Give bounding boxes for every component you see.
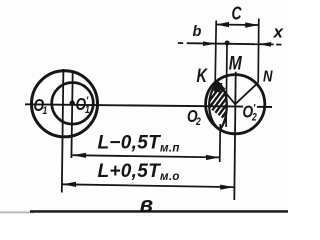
svg-text:L−0,5Tм.п: L−0,5Tм.п <box>98 132 180 154</box>
svg-text:M: M <box>229 54 243 75</box>
svg-text:O2: O2 <box>187 108 201 129</box>
svg-text:x: x <box>273 23 285 42</box>
svg-text:b: b <box>193 24 202 40</box>
svg-text:L+0,5Tм.о: L+0,5Tм.о <box>98 161 180 183</box>
svg-text:N: N <box>263 68 273 85</box>
svg-text:C: C <box>232 2 242 23</box>
svg-text:K: K <box>197 66 208 87</box>
svg-text:O1: O1 <box>34 97 48 118</box>
svg-text:O′2: O′2 <box>243 103 258 124</box>
svg-text:в: в <box>140 192 153 216</box>
svg-text:O′1: O′1 <box>76 95 90 116</box>
